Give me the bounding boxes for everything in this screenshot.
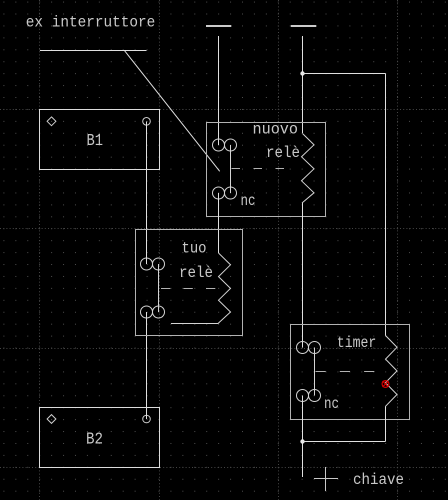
svg-text:nuovo: nuovo — [253, 121, 299, 139]
wire timer coil down to bottom rail — [385, 406, 387, 441]
battery box B1 — [40, 110, 160, 170]
contact circle tuo bottom-right — [153, 306, 165, 318]
contact circle timer bottom-left — [297, 390, 309, 402]
contact link line nuovo — [230, 145, 232, 193]
contact circle nuovo top-right — [225, 139, 237, 151]
contact circle timer bottom-right — [309, 390, 321, 402]
svg-text:nc: nc — [241, 192, 256, 210]
wire timer nc contact down to chiave node — [302, 396, 304, 478]
battery box B2 — [40, 408, 160, 468]
contact link line tuo — [158, 264, 160, 312]
svg-text:ex interruttore: ex interruttore — [26, 14, 156, 32]
supply terminal cap T2 — [291, 25, 317, 27]
wire from cap T1 to nuovo relè contact — [218, 36, 220, 145]
wire branch vertical down to timer coil — [385, 74, 387, 336]
wire tuo relè contact to B2 — [146, 312, 148, 419]
relay box tuo relè — [136, 230, 243, 336]
terminal circle B1 pin 2 — [143, 118, 151, 126]
wire bottom rail horizontal — [303, 441, 386, 443]
contact circle timer top-right — [309, 342, 321, 354]
contact circle tuo bottom-left — [141, 306, 153, 318]
contact circle tuo top-left — [141, 258, 153, 270]
actuator dashed line tuo — [161, 288, 218, 290]
terminal diamond B2 pin 1 — [47, 415, 56, 424]
terminal circle B2 pin 2 — [143, 415, 151, 423]
contact circle nuovo top-left — [213, 139, 225, 151]
actuator dashed line nuovo — [232, 168, 287, 170]
wire branch horizontal to timer coil — [303, 73, 386, 75]
wire nuovo nc contact to tuo relè coil — [218, 193, 220, 253]
svg-text:tuo: tuo — [182, 240, 207, 258]
underline of ex interruttore — [40, 50, 147, 52]
supply terminal cap T1 — [206, 25, 231, 27]
wire from cap T2 to nuovo relè coil — [302, 36, 304, 133]
junction node on T2 wire — [300, 71, 304, 75]
svg-text:B1: B1 — [87, 131, 104, 150]
terminal diamond B1 pin 1 — [47, 117, 56, 126]
relay box nuovo relè — [207, 123, 326, 217]
actuator dashed line timer — [316, 371, 376, 373]
svg-text:relè: relè — [266, 144, 300, 162]
wire nuovo coil to timer contact — [302, 203, 304, 348]
error marker (red) on timer coil — [382, 381, 389, 388]
junction node at bottom rail — [300, 439, 304, 443]
cursor crosshair — [314, 467, 338, 491]
svg-text:chiave: chiave — [353, 471, 404, 489]
contact circle tuo top-right — [153, 258, 165, 270]
contact link line timer — [314, 348, 316, 396]
wire B1 to tuo relè contact — [146, 122, 148, 265]
coil zigzag nuovo — [302, 134, 315, 204]
svg-text:nc: nc — [324, 395, 339, 413]
contact circle timer top-left — [297, 342, 309, 354]
coil zigzag tuo — [171, 253, 231, 324]
svg-text:relè: relè — [179, 264, 213, 282]
leader line from label to nuovo relè contact — [124, 51, 219, 172]
svg-text:timer: timer — [337, 334, 377, 352]
svg-text:B2: B2 — [86, 429, 103, 448]
contact circle nuovo bottom-right — [225, 187, 237, 199]
contact circle nuovo bottom-left — [213, 187, 225, 199]
relay box timer — [291, 325, 410, 420]
coil zigzag timer — [386, 336, 398, 407]
